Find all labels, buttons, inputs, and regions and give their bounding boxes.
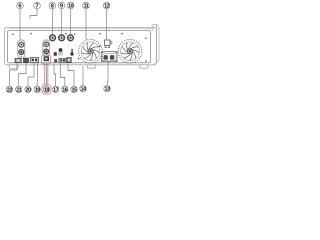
- callout circle 18: [43, 86, 49, 93]
- callout circle 9: [58, 2, 65, 9]
- callout circle 14: [80, 85, 86, 92]
- fan 2: [118, 40, 142, 64]
- lid top edge line: [9, 28, 153, 30]
- speakon connector left: [18, 40, 25, 58]
- callout circle 16: [62, 86, 68, 93]
- callout circle 6: [17, 2, 24, 9]
- leader 6: [19, 9, 21, 40]
- foot left: [10, 65, 19, 68]
- leader 7: [30, 9, 37, 19]
- svg-text:21: 21: [16, 87, 21, 93]
- bottom connector G (target of 15): [67, 58, 71, 63]
- leader 22: [10, 63, 18, 86]
- leader 13: [106, 62, 109, 86]
- callout circle 7: [34, 2, 41, 9]
- rear panel face: [8, 31, 151, 63]
- callout circle 10: [67, 2, 74, 9]
- svg-text:10: 10: [68, 4, 73, 10]
- callout circle 15: [71, 86, 77, 93]
- svg-text:14: 14: [81, 87, 86, 93]
- leader 15: [68, 64, 74, 87]
- callout circle 13: [104, 86, 110, 93]
- AC power inlet (target of 13): [102, 52, 118, 62]
- callout circle 19: [34, 86, 40, 93]
- bottom connector C (target of 20/19): [30, 57, 38, 62]
- foot right: [140, 65, 149, 68]
- speakon connector right: [43, 40, 50, 57]
- bottom connector E (target of 17): [54, 59, 57, 62]
- svg-text:17: 17: [53, 87, 58, 93]
- callout circle 11: [83, 2, 90, 9]
- svg-text:18: 18: [44, 87, 49, 93]
- small connector upper (x55): [54, 52, 57, 56]
- leader 21: [19, 63, 26, 86]
- bottom connector F (target of 16): [59, 58, 66, 62]
- right side face edge: [153, 25, 159, 65]
- input jack 3: [68, 35, 74, 41]
- leader 14: [82, 66, 84, 85]
- leader 8: [51, 9, 53, 34]
- leader 20: [28, 63, 34, 86]
- red highlight box around callout 18: [42, 85, 51, 94]
- foot middle: [87, 65, 96, 68]
- svg-text:19: 19: [35, 87, 40, 93]
- callout circle 22: [6, 86, 12, 93]
- red highlight band on leader 18: [45, 64, 48, 85]
- breaker square (target of 12): [105, 40, 112, 48]
- input jack 2: [59, 35, 65, 41]
- callout circle 17: [52, 86, 58, 93]
- svg-text:20: 20: [26, 87, 31, 93]
- leader 17: [54, 64, 56, 87]
- callout circle 21: [16, 86, 22, 93]
- leader 9: [61, 9, 63, 34]
- callout circle 12: [103, 2, 110, 9]
- leader 11: [85, 9, 87, 40]
- bottom connector D (target of 18, highlighted): [44, 56, 49, 61]
- svg-text:16: 16: [62, 87, 67, 93]
- input jack 1: [50, 35, 56, 41]
- right side face top: [153, 25, 157, 63]
- bottom connector B (target of 21): [24, 58, 29, 63]
- leader 18: [45, 64, 47, 87]
- bottom connector A (target of 22): [15, 58, 21, 62]
- svg-text:11: 11: [84, 4, 89, 10]
- leader 10: [70, 9, 72, 34]
- red highlight box around connector D: [42, 55, 51, 64]
- small jack upper (x60): [59, 48, 63, 55]
- panel screws: [12, 33, 147, 62]
- svg-text:15: 15: [72, 87, 77, 93]
- callout circle 20: [25, 86, 31, 93]
- leader 19: [36, 63, 38, 86]
- svg-text:13: 13: [105, 87, 110, 93]
- svg-text:12: 12: [104, 4, 109, 10]
- leader 16: [61, 64, 65, 87]
- svg-text:22: 22: [7, 87, 12, 93]
- leader 12: [106, 9, 108, 40]
- callout circle 8: [49, 2, 56, 9]
- chassis outer outline: [5, 28, 157, 65]
- toggle switch (x72): [70, 49, 73, 56]
- fan 1: [79, 40, 103, 64]
